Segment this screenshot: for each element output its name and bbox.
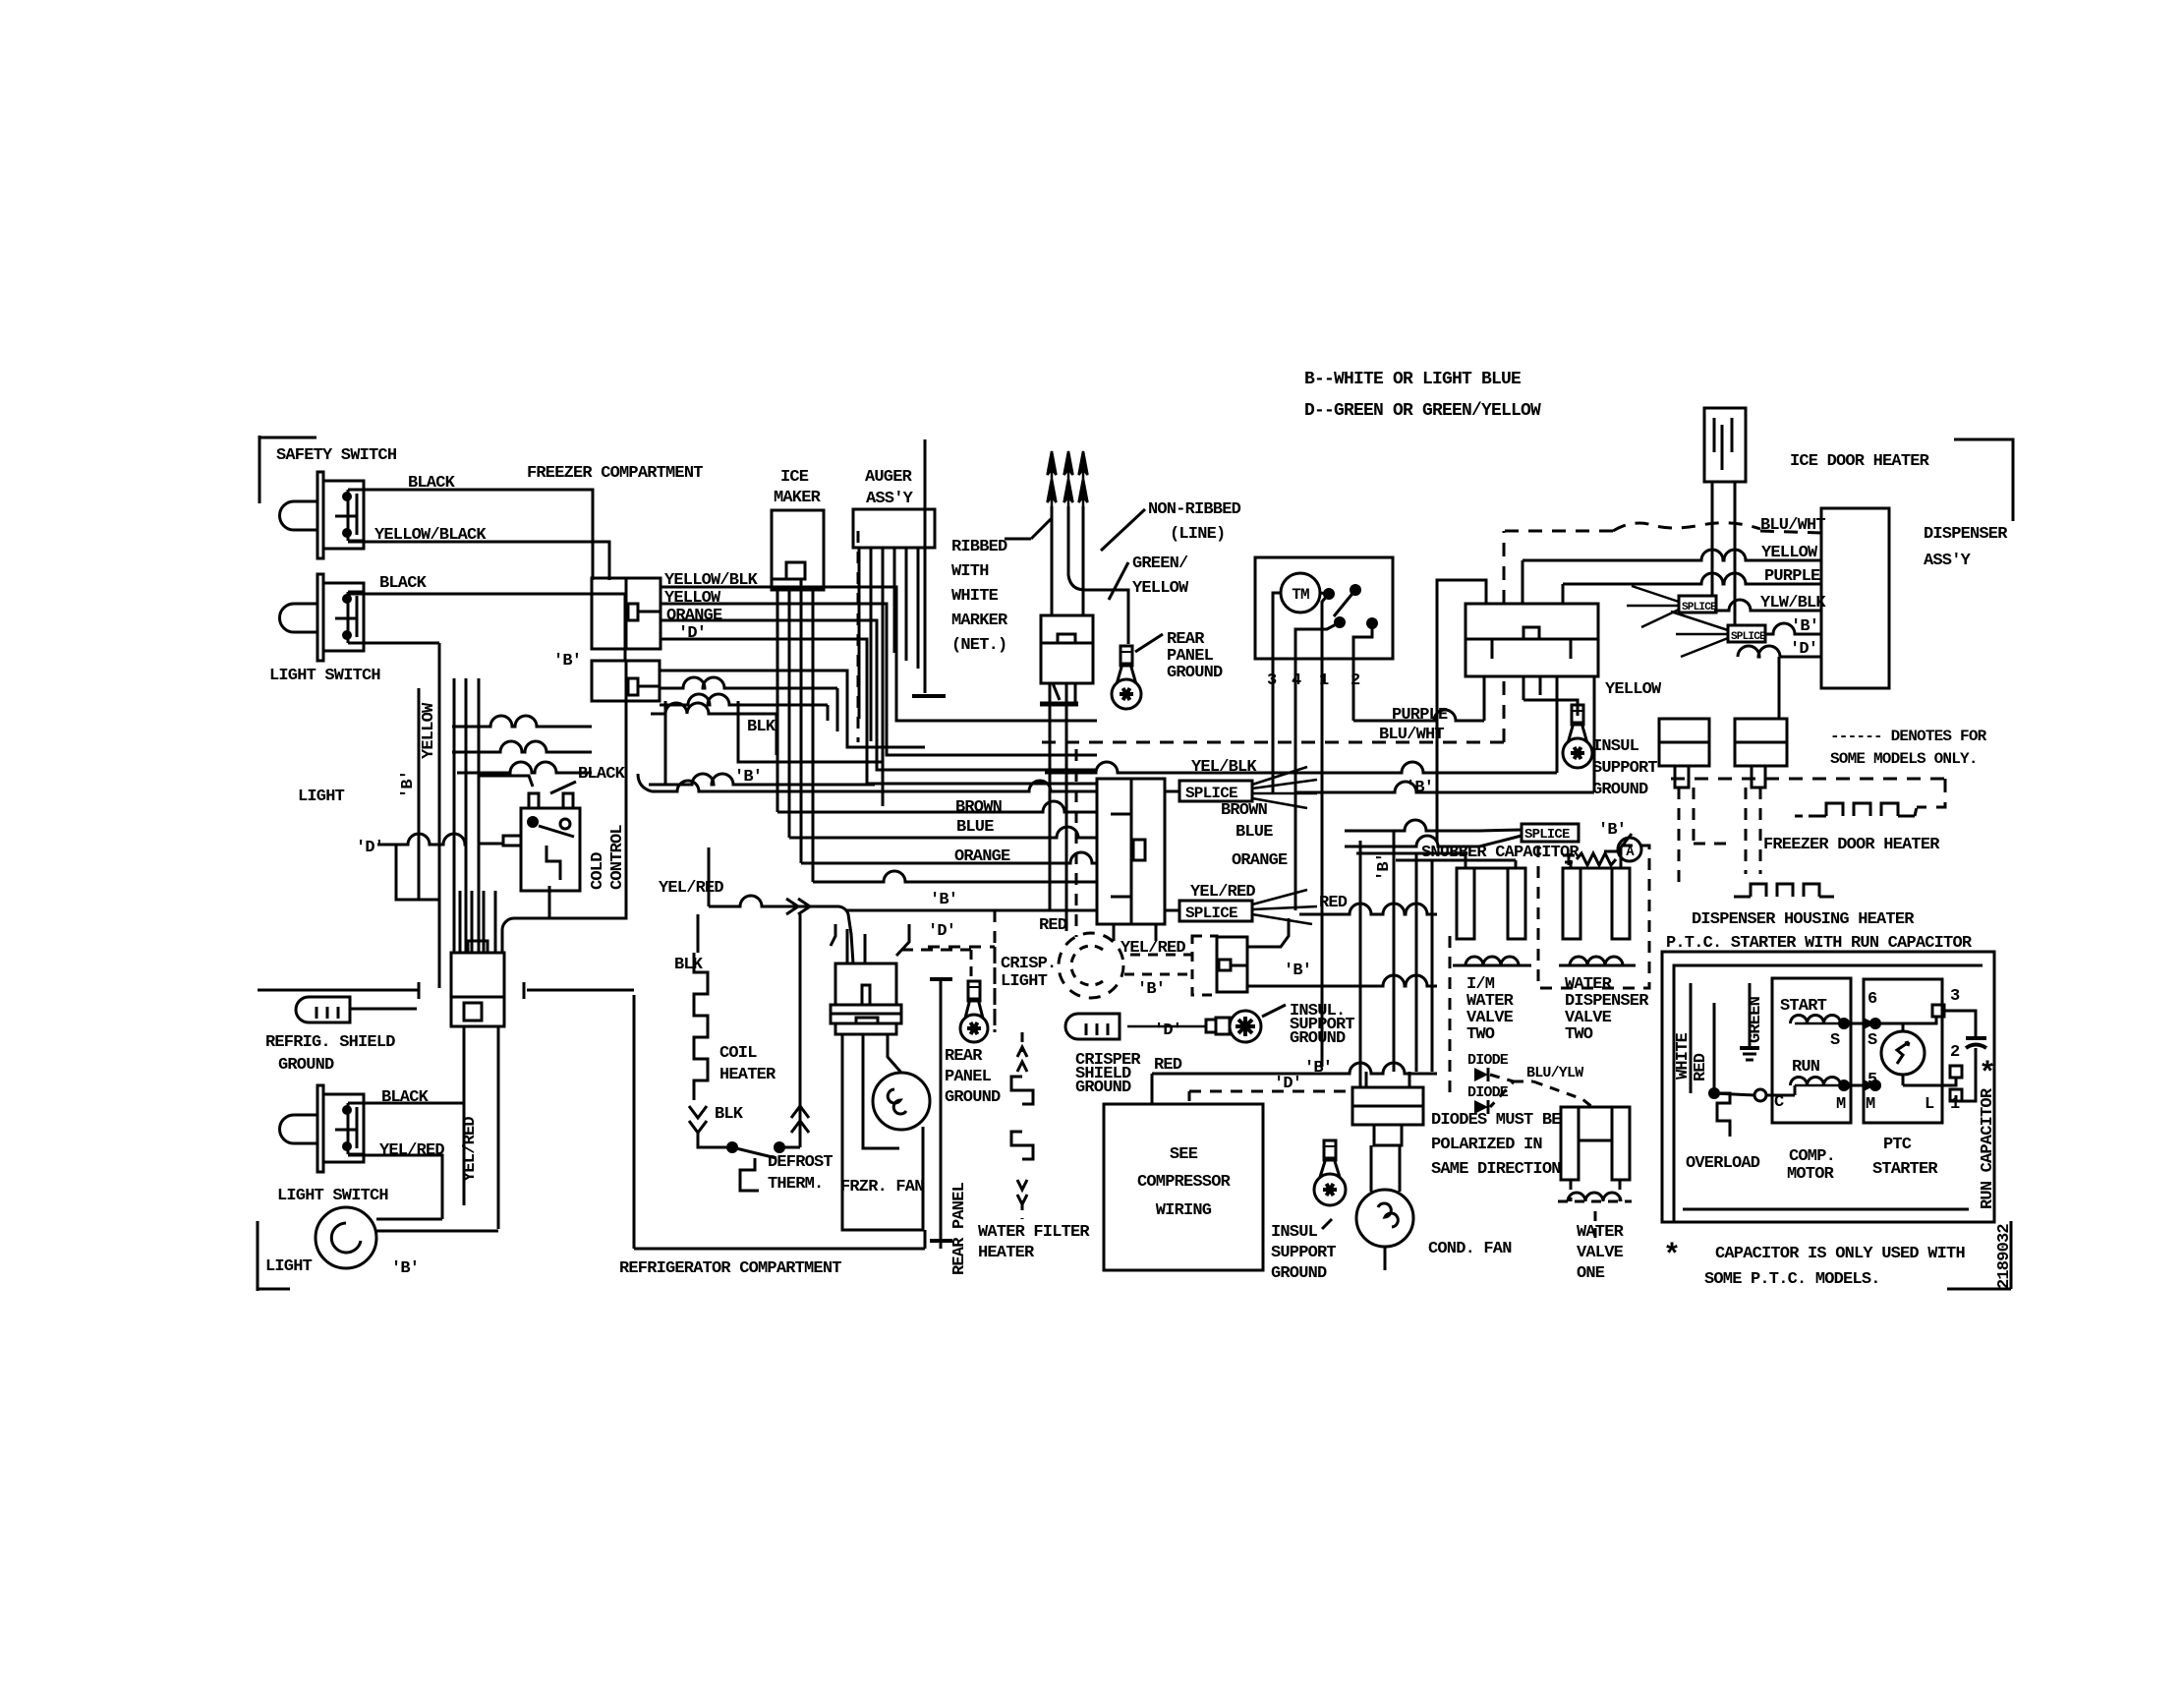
- asterisk 1: [1979, 1058, 1995, 1091]
- svg-text:BLUE: BLUE: [1236, 823, 1273, 842]
- svg-text:YELLOW: YELLOW: [1605, 680, 1662, 699]
- svg-text:COLD: COLD: [589, 852, 607, 890]
- svg-text:SPLICE: SPLICE: [1731, 631, 1766, 643]
- D row right: [1738, 646, 1821, 657]
- svg-text:SPLICE: SPLICE: [1682, 602, 1717, 613]
- svg-text:TWO: TWO: [1466, 1025, 1495, 1044]
- label blu/wht: [1379, 726, 1444, 744]
- wire black lower: [348, 1088, 464, 1107]
- svg-text:'D': 'D': [928, 922, 955, 941]
- rear panel line: [930, 979, 952, 1249]
- svg-text:S: S: [1830, 1031, 1840, 1050]
- dispenser assy label: [1924, 525, 2008, 570]
- svg-text:TM: TM: [1292, 586, 1309, 604]
- junction connector: [451, 941, 504, 1026]
- ice maker label: [774, 468, 822, 507]
- label red right: [1319, 894, 1348, 912]
- water dispenser valve coil: [1559, 957, 1636, 965]
- ribbed plug body: [1040, 615, 1093, 704]
- water valve one label: [1577, 1223, 1625, 1283]
- blu/wht dashed upper: [1504, 523, 1821, 604]
- insul support ground right label: [1592, 737, 1657, 799]
- ice door heater label: [1790, 452, 1930, 471]
- ptc circle: [1881, 1023, 1925, 1085]
- label B crisp: [1137, 980, 1165, 999]
- svg-text:RED: RED: [1039, 916, 1067, 935]
- label 1: [1950, 1095, 1960, 1114]
- frzr fan lamp: [873, 1073, 930, 1130]
- diodes note: [1431, 1111, 1561, 1179]
- svg-text:REFRIGERATOR COMPARTMENT: REFRIGERATOR COMPARTMENT: [619, 1259, 841, 1278]
- svg-text:PANEL: PANEL: [945, 1068, 992, 1086]
- freezer B row2: [649, 774, 875, 785]
- wire yel/red cold control: [549, 879, 723, 918]
- svg-text:INSUL: INSUL: [1271, 1223, 1318, 1242]
- svg-text:M: M: [1836, 1095, 1846, 1114]
- label run capacitor: [1979, 1087, 1997, 1209]
- svg-text:3: 3: [1950, 987, 1960, 1006]
- label overload: [1686, 1154, 1760, 1173]
- ptc left wires: [1691, 983, 1795, 1095]
- label D disp: [1790, 640, 1817, 659]
- splice5 fan: [1671, 612, 1728, 657]
- valves dashed box: [1538, 846, 1649, 988]
- svg-text:LIGHT: LIGHT: [1001, 972, 1048, 991]
- label B right: [1406, 779, 1433, 797]
- light switch lower label: [277, 1187, 388, 1205]
- svg-text:ORANGE: ORANGE: [1232, 851, 1288, 870]
- see compressor wiring text: [1137, 1145, 1232, 1220]
- svg-text:YEL/RED: YEL/RED: [1190, 883, 1255, 902]
- svg-text:SUPPORT: SUPPORT: [1592, 759, 1657, 778]
- svg-text:GROUND: GROUND: [945, 1088, 1001, 1107]
- water filter heater label: [978, 1223, 1090, 1262]
- label brown left: [955, 798, 1003, 817]
- refrigerator compartment boundary: [634, 995, 925, 1249]
- svg-text:YEL/RED: YEL/RED: [379, 1141, 444, 1160]
- diode 1: [1467, 1052, 1509, 1081]
- label B crisp2: [1284, 962, 1311, 980]
- label yel/red crisp: [1121, 939, 1185, 958]
- label D: [356, 839, 383, 857]
- label blk coil: [674, 914, 704, 974]
- crisp dashed wires: [1124, 955, 1192, 974]
- diode 2: [1467, 1084, 1509, 1114]
- freezer compartment label: [527, 464, 703, 483]
- wire yel/blk run: [1045, 676, 1557, 773]
- auger assy body: [853, 509, 935, 548]
- ptc starter box: [1864, 979, 1942, 1123]
- label B valve: [1598, 821, 1626, 840]
- freezer compartment corner mark: [259, 436, 316, 503]
- svg-text:(LINE): (LINE): [1170, 525, 1225, 544]
- frzr fan legs: [842, 1034, 923, 1230]
- svg-text:RUN CAPACITOR: RUN CAPACITOR: [1979, 1087, 1997, 1209]
- svg-text:REAR: REAR: [945, 1047, 983, 1066]
- bus wire row D: [928, 947, 995, 1032]
- label yellow/blk: [664, 571, 759, 590]
- cold control label: [589, 825, 627, 890]
- label B bottom left: [391, 1259, 419, 1278]
- insul support ground low label: [1271, 1219, 1336, 1283]
- freezer door heater label: [1763, 836, 1940, 854]
- plug right 2: [1735, 719, 1787, 788]
- svg-text:WIRING: WIRING: [1156, 1201, 1212, 1220]
- label 6: [1868, 990, 1877, 1009]
- svg-text:BLK: BLK: [747, 718, 776, 736]
- ice maker wires: [777, 579, 813, 882]
- freezer boundary ground: [912, 439, 946, 696]
- svg-text:6: 6: [1868, 990, 1877, 1009]
- svg-text:WATER FILTER: WATER FILTER: [978, 1223, 1090, 1242]
- svg-text:'B': 'B': [1375, 853, 1394, 881]
- label light bottom: [265, 1257, 313, 1276]
- part number: [1947, 1221, 2014, 1289]
- label M left: [1836, 1095, 1846, 1114]
- im water valve label: [1466, 975, 1515, 1044]
- svg-text:INSUL: INSUL: [1592, 737, 1639, 756]
- svg-text:SPLICE: SPLICE: [1185, 905, 1237, 922]
- svg-text:OVERLOAD: OVERLOAD: [1686, 1154, 1760, 1173]
- label yel/red right: [1190, 883, 1255, 902]
- svg-text:ORANGE: ORANGE: [666, 607, 722, 625]
- svg-text:COND. FAN: COND. FAN: [1428, 1240, 1512, 1258]
- wire red compressor: [1151, 1074, 1154, 1104]
- label red bottom: [1154, 1056, 1182, 1075]
- wire arrows right: [786, 899, 810, 914]
- purple row right: [1563, 573, 1821, 604]
- ribbed plug pin wires: [1052, 506, 1128, 644]
- wire B run right: [1295, 676, 1594, 792]
- crisp lamp connector: [1192, 936, 1247, 995]
- label orange right: [1232, 851, 1288, 870]
- ptc outer box: [1662, 952, 1994, 1222]
- green ground: [1740, 1043, 1759, 1060]
- svg-text:GREEN/: GREEN/: [1132, 555, 1188, 573]
- ribbed plug pins: [1048, 451, 1088, 506]
- capacitor note: [1663, 1240, 1965, 1289]
- svg-text:COIL: COIL: [719, 1044, 757, 1063]
- connector A wires right: [661, 587, 1097, 784]
- svg-text:'B': 'B': [1598, 821, 1626, 840]
- D row staircase: [377, 834, 467, 900]
- freezer vertical 677: [664, 701, 667, 785]
- big connector top wire A: [1437, 580, 1486, 842]
- svg-text:GROUND: GROUND: [278, 1056, 334, 1075]
- insul support ground low: [1314, 1140, 1346, 1205]
- freezer door heater: [1671, 779, 1945, 816]
- svg-text:SAME DIRECTION: SAME DIRECTION: [1431, 1160, 1561, 1179]
- water dispenser valve two body: [1563, 868, 1630, 939]
- svg-text:CONTROL: CONTROL: [608, 825, 627, 890]
- splice 1: [1165, 767, 1317, 808]
- dispenser housing heater label: [1692, 910, 1915, 929]
- svg-text:MOTOR: MOTOR: [1787, 1165, 1835, 1184]
- svg-text:ASS'Y: ASS'Y: [1924, 552, 1972, 570]
- wire D compressor: [1188, 1091, 1191, 1104]
- ribbed plug bottom wires: [1050, 682, 1066, 931]
- label ylw/blk disp: [1760, 594, 1826, 613]
- svg-text:YEL/RED: YEL/RED: [461, 1117, 480, 1182]
- svg-text:NON-RIBBED: NON-RIBBED: [1148, 500, 1241, 519]
- wire to splice3 fan: [1345, 820, 1522, 846]
- svg-text:GROUND: GROUND: [1167, 664, 1223, 682]
- label 2: [1950, 1043, 1960, 1062]
- label B bottom: [1304, 1059, 1332, 1078]
- svg-text:D--GREEN OR GREEN/YELLOW: D--GREEN OR GREEN/YELLOW: [1304, 401, 1541, 421]
- svg-text:GROUND: GROUND: [1592, 781, 1648, 799]
- svg-text:FREEZER COMPARTMENT: FREEZER COMPARTMENT: [527, 464, 703, 483]
- snubber resistor: [1563, 853, 1616, 865]
- label D mid: [928, 922, 955, 941]
- comp motor box: [1772, 978, 1851, 1123]
- svg-text:'B': 'B': [391, 1259, 419, 1278]
- svg-text:YELLOW: YELLOW: [1132, 579, 1189, 598]
- safety switch body: [280, 472, 365, 558]
- label 5: [1868, 1071, 1877, 1089]
- below box verticals: [1523, 676, 1594, 792]
- label non-ribbed: [1101, 500, 1241, 551]
- svg-text:SOME MODELS ONLY.: SOME MODELS ONLY.: [1830, 750, 1978, 768]
- label snubber capacitor: [1421, 844, 1620, 862]
- bus wire row blue: [789, 827, 1097, 838]
- big right connector: [1466, 604, 1598, 676]
- label yel/blk mid: [1191, 758, 1257, 777]
- dispenser assy box: [1821, 508, 1889, 688]
- svg-text:SEE: SEE: [1170, 1145, 1198, 1164]
- central connector bottom wires: [1114, 924, 1156, 941]
- svg-text:SOME P.T.C. MODELS.: SOME P.T.C. MODELS.: [1704, 1270, 1880, 1289]
- label start: [1780, 997, 1827, 1016]
- svg-text:------ DENOTES FOR: ------ DENOTES FOR: [1830, 728, 1987, 745]
- safety switch label: [276, 446, 397, 465]
- cold control black label: [550, 765, 626, 793]
- wire black safety switch: [348, 474, 593, 580]
- svg-text:ICE DOOR HEATER: ICE DOOR HEATER: [1790, 452, 1930, 471]
- light area corner mark: [258, 1221, 290, 1291]
- label green: [1747, 996, 1765, 1043]
- auger dashed vertical: [857, 531, 860, 742]
- svg-text:'B': 'B': [1137, 980, 1165, 999]
- bus wire row1: [638, 774, 1097, 791]
- cond fan label: [1428, 1240, 1512, 1258]
- left joining rows: [452, 716, 592, 773]
- B vertical label valves: [1375, 853, 1394, 881]
- ptc starter title: [1666, 934, 1973, 953]
- coil heater zigzag: [694, 953, 708, 1100]
- label B vertical: [399, 771, 418, 798]
- water valve one coil: [1558, 1180, 1632, 1241]
- svg-text:M: M: [1866, 1095, 1875, 1114]
- svg-text:PTC: PTC: [1883, 1136, 1912, 1154]
- wire red bottom: [1152, 1063, 1437, 1074]
- label blk2: [747, 718, 776, 736]
- ylwblk row right: [1557, 600, 1821, 688]
- svg-text:COMPRESSOR: COMPRESSOR: [1137, 1173, 1232, 1192]
- label B2: [553, 652, 581, 671]
- label red mid: [1039, 916, 1067, 935]
- junction verticals up: [460, 891, 495, 953]
- svg-text:'B': 'B': [399, 771, 418, 798]
- svg-text:TWO: TWO: [1565, 1025, 1593, 1044]
- svg-text:'D': 'D': [1154, 1022, 1181, 1040]
- svg-text:DIODES MUST BE: DIODES MUST BE: [1431, 1111, 1561, 1130]
- label B disp: [1791, 617, 1818, 636]
- svg-text:DEFROST: DEFROST: [768, 1153, 833, 1172]
- label ptc starter: [1872, 1136, 1938, 1179]
- freezer B row: [651, 703, 776, 755]
- svg-text:BLUE: BLUE: [956, 818, 994, 837]
- svg-text:DISPENSER: DISPENSER: [1924, 525, 2008, 544]
- svg-text:'B': 'B': [553, 652, 581, 671]
- wire yellow vertical: [420, 702, 438, 759]
- svg-text:B--WHITE OR LIGHT BLUE: B--WHITE OR LIGHT BLUE: [1304, 370, 1522, 389]
- plug right 1: [1659, 719, 1709, 788]
- label C: [1774, 1093, 1784, 1112]
- coil heater bottom: [698, 1133, 732, 1147]
- label blue right: [1236, 823, 1273, 842]
- svg-text:ICE: ICE: [780, 468, 809, 487]
- svg-text:WHITE: WHITE: [951, 587, 999, 606]
- label yellow2: [664, 589, 721, 608]
- splice 4: [1679, 596, 1717, 613]
- svg-text:FREEZER DOOR HEATER: FREEZER DOOR HEATER: [1763, 836, 1940, 854]
- center verticals: [1360, 831, 1432, 1087]
- junction verticals down: [464, 1026, 498, 1229]
- svg-text:BLU/YLW: BLU/YLW: [1526, 1065, 1583, 1081]
- label yelred vertical: [461, 1117, 480, 1182]
- label brown right: [1221, 801, 1268, 820]
- svg-text:DISPENSER HOUSING HEATER: DISPENSER HOUSING HEATER: [1692, 910, 1915, 929]
- svg-text:MAKER: MAKER: [774, 489, 822, 507]
- wire D bottom: [1189, 1090, 1352, 1093]
- overload sym: [1708, 1087, 1766, 1137]
- label white: [1674, 1032, 1693, 1080]
- timer pin labels: [1267, 671, 1360, 690]
- label L: [1925, 1095, 1934, 1114]
- light lamp: [316, 1207, 498, 1268]
- splice 3: [1522, 824, 1579, 843]
- svg-text:GROUND: GROUND: [1271, 1264, 1327, 1283]
- rear panel ground left label: [945, 1047, 1001, 1107]
- diode wires: [1490, 1075, 1592, 1107]
- bus wire row orange: [801, 852, 1097, 863]
- arrow up right: [791, 1106, 809, 1133]
- fan ground dashed: [901, 950, 971, 983]
- connector B: [592, 661, 660, 701]
- water filter heater: [1011, 1032, 1033, 1219]
- timer box: [1255, 557, 1393, 659]
- im water valve coil: [1453, 957, 1531, 965]
- label blue left: [956, 818, 994, 837]
- wire black light switch: [348, 574, 625, 661]
- svg-text:SPLICE: SPLICE: [1524, 827, 1570, 843]
- splice 5: [1728, 625, 1766, 643]
- frzr fan label: [840, 1178, 924, 1197]
- refrigerator compartment label: [619, 1259, 841, 1278]
- coil heater arrow down: [689, 1105, 744, 1133]
- timer pin wires: [1273, 659, 1353, 1067]
- svg-text:L: L: [1925, 1095, 1934, 1114]
- svg-text:HEATER: HEATER: [978, 1244, 1035, 1262]
- svg-text:LIGHT SWITCH: LIGHT SWITCH: [277, 1187, 388, 1205]
- svg-text:ASS'Y: ASS'Y: [866, 490, 914, 508]
- dispenser housing heater bumps: [1734, 884, 1834, 897]
- lamp connector wires: [1247, 918, 1437, 986]
- wire yelred lower: [348, 1141, 444, 1219]
- legend note D: [1304, 401, 1541, 421]
- bus wire row B: [845, 909, 1097, 912]
- cold control pin wire left: [479, 776, 533, 787]
- svg-text:THERM.: THERM.: [768, 1175, 823, 1194]
- svg-text:'B': 'B': [930, 891, 957, 909]
- svg-text:RED: RED: [1692, 1053, 1710, 1081]
- cond fan lamp: [1356, 1145, 1413, 1270]
- run capacitor sym: [1966, 1032, 1986, 1060]
- ice maker body: [772, 510, 824, 590]
- frzr fan plug: [831, 924, 909, 1034]
- im valve dashed: [1449, 936, 1452, 1098]
- crisper shield ground label: [1075, 1051, 1141, 1097]
- label yellow disp: [1761, 544, 1818, 562]
- trunk vertical B: [418, 688, 421, 900]
- svg-text:CRISP.: CRISP.: [1001, 955, 1056, 973]
- svg-text:GROUND: GROUND: [1075, 1079, 1131, 1097]
- yellow label right: [1605, 680, 1662, 699]
- label D2: [678, 624, 706, 643]
- wire purple run: [1353, 676, 1484, 721]
- svg-text:GROUND: GROUND: [1290, 1029, 1346, 1048]
- svg-text:POLARIZED IN: POLARIZED IN: [1431, 1136, 1542, 1154]
- svg-text:RUN: RUN: [1792, 1058, 1820, 1077]
- bus wire row brown: [777, 801, 1097, 812]
- run coil: [1791, 1078, 1851, 1092]
- label blu/ylw: [1526, 1065, 1583, 1081]
- coil heater label: [719, 1044, 776, 1084]
- svg-text:VALVE: VALVE: [1577, 1244, 1624, 1262]
- svg-text:YELLOW: YELLOW: [420, 702, 438, 759]
- svg-text:RED: RED: [1154, 1056, 1182, 1075]
- splice4 fan: [1627, 586, 1679, 627]
- svg-text:WITH: WITH: [951, 562, 989, 581]
- label 3: [1950, 987, 1960, 1006]
- label run: [1792, 1058, 1820, 1077]
- crisp light label: [1001, 955, 1056, 991]
- svg-text:LIGHT SWITCH: LIGHT SWITCH: [269, 667, 380, 685]
- svg-text:SPLICE: SPLICE: [1185, 785, 1237, 802]
- insul support ground mid label: [1262, 1002, 1354, 1048]
- svg-text:SUPPORT: SUPPORT: [1271, 1244, 1336, 1262]
- svg-text:'B': 'B': [1284, 962, 1311, 980]
- rear panel ground left symbol: [960, 981, 988, 1042]
- see compressor wiring box: [1104, 1104, 1263, 1270]
- svg-text:HEATER: HEATER: [719, 1066, 776, 1084]
- label purple disp: [1764, 567, 1820, 586]
- svg-text:START: START: [1780, 997, 1827, 1016]
- label D crisp: [1154, 1022, 1181, 1040]
- B row right: [1765, 623, 1821, 634]
- denotes note: [1830, 728, 1987, 768]
- defrost therm label: [768, 1153, 833, 1194]
- cold control tab wire: [479, 844, 503, 891]
- light switch upper body: [280, 574, 365, 661]
- coil heater right line: [779, 914, 800, 1147]
- svg-text:BLK: BLK: [715, 1105, 744, 1124]
- svg-text:BROWN: BROWN: [1221, 801, 1268, 820]
- svg-text:COMP.: COMP.: [1789, 1147, 1835, 1166]
- auger assy label: [865, 468, 914, 508]
- wire yellow/black safety switch: [348, 526, 609, 580]
